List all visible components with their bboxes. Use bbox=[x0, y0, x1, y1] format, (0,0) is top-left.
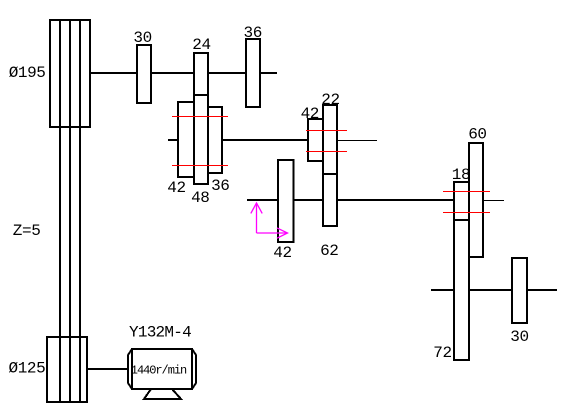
shaft II thin stub bbox=[337, 140, 377, 141]
red mesh line pair 1 lower bbox=[172, 165, 228, 166]
gear Z42 cluster bbox=[178, 102, 194, 177]
mesh divider 24/48 bbox=[194, 94, 208, 96]
gear Z42 shaft III bbox=[278, 160, 294, 242]
red mesh line pair 3 lower bbox=[443, 212, 490, 213]
gear Z22 + Z62 column bbox=[323, 105, 337, 226]
svg-text:42: 42 bbox=[273, 244, 291, 262]
svg-text:30: 30 bbox=[510, 328, 528, 346]
belt 3 bbox=[79, 20, 81, 402]
svg-text:1440r/min: 1440r/min bbox=[131, 364, 187, 378]
motor base bbox=[144, 389, 181, 399]
svg-text:Y132M-4: Y132M-4 bbox=[129, 324, 191, 342]
svg-text:Z=5: Z=5 bbox=[13, 222, 41, 240]
shaft II bbox=[168, 139, 308, 141]
red mesh line pair 3 upper bbox=[443, 191, 490, 192]
svg-text:Ø195: Ø195 bbox=[9, 64, 46, 82]
shaft V bbox=[431, 289, 557, 291]
svg-text:36: 36 bbox=[211, 177, 229, 195]
svg-text:22: 22 bbox=[321, 91, 339, 109]
red mesh line pair 1 upper bbox=[172, 116, 228, 117]
red mesh line pair 2 lower bbox=[306, 151, 347, 152]
red mesh line pair 2 upper bbox=[306, 130, 347, 131]
motor right cap bbox=[192, 349, 196, 389]
gear Z36 shaft I bbox=[246, 39, 260, 107]
svg-text:72: 72 bbox=[433, 344, 451, 362]
svg-text:30: 30 bbox=[133, 29, 151, 47]
motor left cap bbox=[128, 349, 132, 389]
mesh divider 22/62 bbox=[323, 173, 337, 175]
belt 1 bbox=[59, 20, 61, 402]
shaft I bbox=[90, 72, 277, 74]
svg-text:Ø125: Ø125 bbox=[9, 360, 46, 378]
gear Z60 bbox=[469, 143, 483, 257]
belt 2 bbox=[69, 20, 71, 402]
svg-text:42: 42 bbox=[301, 105, 319, 123]
magenta axis arrows bbox=[251, 203, 288, 238]
motor body bbox=[132, 349, 192, 389]
svg-text:24: 24 bbox=[192, 36, 210, 54]
motor shaft wire bbox=[88, 368, 128, 370]
mesh divider 18/72 bbox=[454, 219, 469, 221]
gear Z30 shaft V bbox=[512, 258, 527, 323]
gear Z36 cluster bbox=[208, 107, 222, 173]
gear Z42 shaft II bbox=[308, 119, 323, 161]
svg-text:18: 18 bbox=[452, 166, 470, 184]
gear Z24 + Z48 column bbox=[194, 53, 208, 184]
pulley P125 bbox=[47, 337, 87, 402]
svg-text:42: 42 bbox=[167, 179, 185, 197]
svg-text:48: 48 bbox=[191, 189, 209, 207]
gear Z30 shaft I bbox=[137, 45, 151, 103]
pulley P195 bbox=[50, 20, 90, 127]
svg-text:36: 36 bbox=[244, 24, 262, 42]
shaft III bbox=[247, 199, 454, 201]
svg-text:62: 62 bbox=[320, 242, 338, 260]
gear Z18 + Z72 column bbox=[454, 182, 469, 360]
shaft III thin stub bbox=[483, 200, 504, 201]
svg-text:60: 60 bbox=[468, 126, 486, 144]
